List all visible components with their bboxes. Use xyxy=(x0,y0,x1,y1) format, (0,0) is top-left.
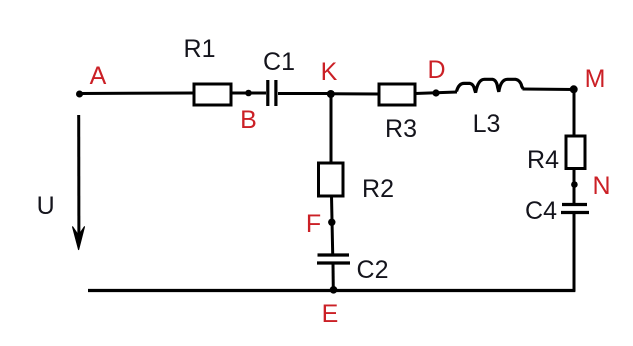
svg-text:C4: C4 xyxy=(525,197,557,225)
svg-text:R2: R2 xyxy=(362,175,394,203)
svg-text:K: K xyxy=(321,58,338,86)
bottom wire xyxy=(88,289,575,292)
wire A to R1 xyxy=(80,92,195,96)
node A xyxy=(76,91,83,98)
wire C4 to bottom xyxy=(573,213,576,292)
wire C2 to E xyxy=(332,264,335,291)
svg-text:L3: L3 xyxy=(473,110,501,138)
svg-text:N: N xyxy=(592,172,610,200)
capacitor C4 xyxy=(561,205,589,213)
svg-text:F: F xyxy=(306,210,321,238)
node K xyxy=(327,90,335,98)
svg-text:E: E xyxy=(322,300,339,328)
svg-text:R3: R3 xyxy=(385,115,417,143)
node M xyxy=(570,85,578,93)
resistor R2 xyxy=(319,163,344,196)
node F xyxy=(328,219,335,226)
svg-text:U: U xyxy=(37,192,55,220)
node B xyxy=(245,90,252,97)
svg-text:R4: R4 xyxy=(527,146,559,174)
capacitor C1 xyxy=(268,80,276,106)
svg-text:C2: C2 xyxy=(357,256,389,284)
wire R4 to C4 xyxy=(573,169,576,204)
resistor R1 xyxy=(194,84,231,105)
wire R1 to C1 xyxy=(231,92,266,95)
wire C1 to K xyxy=(278,92,330,95)
wire M to R4 xyxy=(573,90,576,138)
resistor R4 xyxy=(566,136,585,169)
node N xyxy=(571,181,578,188)
wire R3 to L3 xyxy=(415,92,457,94)
voltage source arrow U xyxy=(77,115,80,240)
svg-text:R1: R1 xyxy=(184,35,216,63)
wire L3 to M xyxy=(523,88,575,92)
resistor R3 xyxy=(379,84,415,105)
svg-text:M: M xyxy=(585,65,606,93)
svg-text:A: A xyxy=(90,62,107,90)
capacitor C2 xyxy=(317,255,350,263)
wire K to R2 xyxy=(330,94,333,164)
wire K to R3 xyxy=(330,92,379,95)
inductor L3 xyxy=(457,79,524,92)
svg-text:B: B xyxy=(240,106,257,134)
node E xyxy=(330,286,338,294)
svg-text:C1: C1 xyxy=(263,48,295,76)
svg-text:D: D xyxy=(427,56,445,84)
wire R2 to C2 xyxy=(332,196,333,254)
node D xyxy=(432,89,439,96)
